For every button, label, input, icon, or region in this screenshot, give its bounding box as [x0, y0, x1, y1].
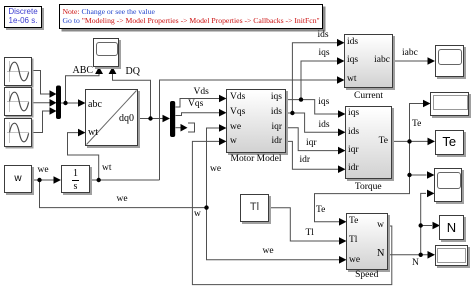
subsystem Torque — [345, 106, 392, 179]
sine wave source 3 — [4, 118, 32, 147]
label N — [412, 259, 419, 269]
wire demux out2 Vqs — [176, 113, 220, 116]
arrow into Te display — [428, 138, 436, 146]
caption Motor Model — [226, 155, 286, 165]
wire we main run — [40, 180, 207, 208]
wire Te branch to scope3 input1 — [410, 174, 427, 176]
junction dot iqs — [299, 97, 303, 101]
wire ids from motor — [286, 113, 339, 132]
arrow into scope1 — [428, 57, 436, 65]
terminator symbol — [188, 123, 195, 132]
port label Vqs — [230, 108, 245, 118]
port label idr (torque) — [348, 164, 359, 174]
caption Speed — [346, 271, 388, 281]
wire we down to Speed we input — [207, 208, 340, 260]
arrow into scope3 input1 — [427, 171, 435, 179]
label iabc — [402, 49, 418, 59]
arrow into Torque iqs — [338, 110, 346, 118]
arrow into abc wt input — [78, 129, 86, 137]
port label we (motor) — [230, 123, 241, 133]
label w (feedback) — [194, 210, 201, 220]
label iqr — [306, 139, 317, 149]
port label Tl (speed) — [349, 236, 357, 246]
junction dot N display — [419, 223, 423, 227]
display bottom numeric — [435, 245, 469, 266]
port label iqr (torque) — [348, 146, 359, 156]
junction dot ids — [290, 111, 294, 115]
label iqs (current wire) — [319, 49, 330, 59]
scope2 screen — [433, 95, 468, 110]
wire DQ branch from dq0 output to scope — [113, 74, 151, 119]
label Tl (wire) — [306, 229, 314, 239]
arrow into scope3 input2 — [427, 190, 435, 198]
junction dot we — [37, 178, 41, 182]
wire Te riser to scope2 — [410, 104, 424, 142]
label DQ — [126, 67, 140, 77]
port label wt (current) — [347, 75, 357, 85]
label we (below motor) — [210, 165, 221, 175]
constant block Tl — [240, 194, 269, 222]
port label iqs (current) — [347, 56, 358, 66]
subsystem Current — [344, 34, 393, 88]
wire wt detour to abc block wt input — [68, 133, 99, 180]
wire Te from Torque — [392, 140, 410, 142]
integrator block 1/s — [61, 165, 90, 193]
arrow into Torque iqr — [338, 147, 346, 155]
wire dq0 output to demux — [138, 118, 164, 120]
arrow into Speed Tl — [339, 237, 347, 245]
port label ids (current) — [347, 38, 358, 48]
wire Tl to Speed Tl input — [270, 208, 340, 241]
port label Te (speed) — [349, 217, 358, 227]
arrow into mux 1 — [50, 90, 57, 98]
label iqs (torque wire) — [318, 98, 329, 108]
subsystem Speed — [346, 213, 388, 270]
display N — [439, 215, 464, 240]
scope3 two input — [434, 168, 462, 202]
arrow into motor w — [219, 138, 227, 146]
sine wave source 1 — [4, 57, 32, 86]
port label iqs (torque) — [348, 109, 359, 119]
label we (to speed) — [263, 247, 274, 257]
wire w feedback from Speed — [192, 141, 391, 284]
wire demux out1 Vds — [176, 99, 220, 108]
arrow into demux — [163, 115, 171, 123]
junction dot dq0 out — [148, 116, 152, 120]
port label w out — [360, 221, 384, 231]
port label we (speed) — [349, 256, 360, 266]
junction dot N wire — [419, 253, 423, 257]
label ids (current wire) — [318, 31, 329, 41]
wire iqs from motor — [286, 100, 339, 114]
arrow into Torque ids — [338, 129, 346, 137]
wire demux out3 to terminator — [176, 127, 182, 129]
arrow into bottom display — [428, 251, 436, 259]
arrow into integrator — [54, 176, 62, 184]
label we (long wire) — [117, 195, 128, 205]
port label N out — [360, 249, 385, 259]
arrow into Current ids — [337, 39, 345, 47]
junction dot mux out ABC — [63, 101, 67, 105]
caption Torque — [345, 183, 392, 193]
junction dot we lower — [204, 205, 208, 209]
port label iqs out — [255, 93, 282, 103]
port label Vds — [230, 93, 245, 103]
wire N from Speed to display — [388, 254, 428, 256]
label Te (to speed) — [316, 206, 325, 216]
scope3 screen — [437, 172, 461, 189]
arrow into motor we — [219, 124, 227, 132]
arrow into motor Vds — [219, 95, 227, 103]
junction dot Te scope3 — [407, 173, 411, 177]
label idr — [300, 156, 311, 166]
arrow into scope2 — [423, 100, 431, 108]
arrow into terminator — [181, 124, 188, 132]
mux bar — [56, 86, 61, 120]
wire ABC branch to scope — [66, 74, 100, 104]
arrow into mux 2 — [50, 99, 57, 107]
port label ids out — [255, 108, 282, 118]
wire idr from motor to Torque — [286, 141, 339, 169]
port label idr out — [255, 137, 282, 147]
wire Te to Te display — [410, 140, 428, 142]
wire we riser to motor we input — [207, 128, 220, 208]
wire wt riser to Current wt input — [160, 80, 338, 180]
arrow into Torque idr — [338, 165, 346, 173]
port label iabc out — [360, 56, 390, 66]
caption Current — [344, 92, 393, 102]
annotation note box — [59, 4, 323, 29]
arrow into mux 3 — [50, 107, 57, 115]
arrow into Current wt — [337, 76, 345, 84]
label Te (scope riser) — [412, 120, 421, 130]
scope1 screen — [438, 49, 462, 65]
label ABC — [73, 66, 94, 76]
arrow into motor Vqs — [219, 109, 227, 117]
arrow up into scope DQ — [109, 67, 117, 74]
sine wave source 2 — [4, 87, 32, 116]
scope2 Te wide — [430, 92, 469, 116]
wire ids riser to Current — [292, 43, 337, 113]
junction dot wt — [97, 178, 101, 182]
port label w (motor) — [230, 137, 237, 147]
label Vqs — [188, 100, 203, 110]
powergui block Discrete — [4, 6, 42, 28]
wire sine2 to mux — [32, 102, 51, 104]
scope screen — [96, 42, 118, 57]
display Te — [435, 130, 465, 155]
port label dq0 — [119, 114, 134, 124]
wire N branch to N display — [421, 225, 432, 227]
port label abc — [88, 100, 102, 110]
wire iqs riser to Current — [301, 61, 338, 100]
scope1 iabc — [435, 45, 464, 77]
label wt (integrator out) — [102, 164, 112, 174]
wire iqr from motor to Torque — [286, 128, 339, 151]
integrator fraction — [61, 169, 90, 179]
wire sine3 to mux — [32, 111, 51, 133]
wire mux out to abc input — [61, 102, 79, 104]
wire Te down to Speed Te input — [315, 141, 410, 221]
wire iabc Current to scope1 — [394, 60, 429, 62]
subsystem Motor Model — [226, 89, 286, 153]
arrow into Speed we — [339, 256, 347, 264]
label Vds — [194, 88, 209, 98]
demux bar — [170, 101, 175, 137]
scope block top — [93, 38, 119, 67]
arrow into Speed Te — [339, 218, 347, 226]
arrow into Current iqs — [337, 57, 345, 65]
arrow up into scope ABC — [95, 67, 103, 74]
port label ids (torque) — [348, 128, 359, 138]
arrow into abc input — [78, 99, 86, 107]
port label iqr out — [255, 123, 282, 133]
port label wt — [88, 128, 98, 138]
abc to dq0 transform block — [85, 89, 138, 146]
wire w constant to integrator — [32, 179, 55, 181]
wire N riser to scope3 input2 — [421, 193, 426, 254]
label ids (torque wire) — [319, 121, 330, 131]
arrow into N display — [433, 222, 441, 230]
junction dot Te — [407, 139, 411, 143]
wire integrator output wt — [91, 179, 160, 181]
wire sine1 to mux — [32, 71, 51, 95]
port label Te out — [360, 137, 388, 147]
constant block w — [4, 165, 32, 193]
label we (constant out) — [38, 166, 49, 176]
